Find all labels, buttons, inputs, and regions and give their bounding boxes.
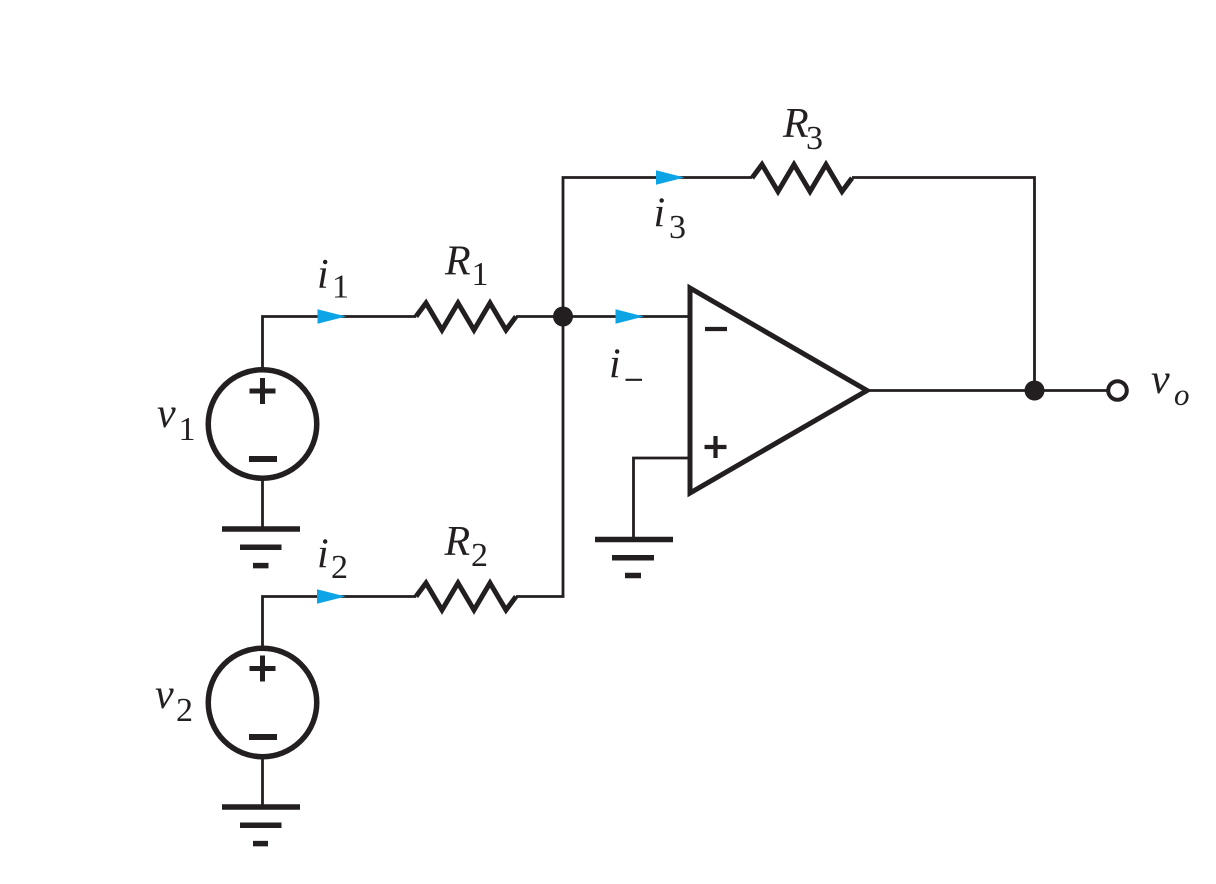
source v2 <box>208 648 317 757</box>
svg-text:3: 3 <box>669 209 686 246</box>
svg-text:2: 2 <box>471 537 488 574</box>
wire vertical riser node to top feedback <box>563 178 752 597</box>
svg-text:3: 3 <box>806 120 823 157</box>
op-amp minus sign <box>705 327 727 331</box>
wire R1 to op-amp inverting input <box>516 315 690 318</box>
source v1 <box>208 370 317 479</box>
svg-text:1: 1 <box>332 269 349 306</box>
svg-text:1: 1 <box>472 256 489 293</box>
wire R2 right to vertical riser <box>516 595 564 598</box>
wire v2 top to R2 <box>263 597 417 648</box>
wire v1 bottom to ground <box>261 480 264 530</box>
svg-text:i: i <box>317 252 329 298</box>
svg-text:o: o <box>1174 377 1190 412</box>
source v2 minus sign <box>249 734 277 740</box>
wire R3 to feedback drop <box>852 178 1035 391</box>
wire op-amp output <box>867 389 1107 392</box>
arrow i1 <box>318 309 347 324</box>
output terminal circle <box>1108 381 1127 400</box>
svg-text:R: R <box>782 101 809 147</box>
source v1 minus sign <box>249 456 277 462</box>
wire v2 bottom to ground <box>261 757 264 807</box>
ground (op-amp noninverting) <box>595 540 673 576</box>
svg-text:2: 2 <box>331 549 348 586</box>
ground (v2) <box>222 807 300 844</box>
resistor R1 <box>416 303 516 330</box>
source v1 plus sign <box>250 378 276 404</box>
ground (v1) <box>222 529 300 566</box>
op-amp plus sign <box>705 436 727 458</box>
resistor R2 <box>416 583 516 610</box>
source v2 plus sign <box>250 656 276 682</box>
arrow i-minus <box>616 309 645 324</box>
arrow i2 <box>317 589 346 604</box>
svg-text:R: R <box>444 239 471 285</box>
node B (output junction) <box>1025 381 1045 401</box>
svg-text:v: v <box>157 391 176 437</box>
resistor R3 <box>752 165 852 192</box>
svg-text:R: R <box>444 519 471 565</box>
arrow i3 <box>656 170 685 185</box>
svg-text:1: 1 <box>179 411 196 448</box>
wire v1 top to R1 <box>263 317 417 369</box>
svg-text:i: i <box>317 532 329 578</box>
node A (inverting input junction) <box>553 307 573 327</box>
svg-text:v: v <box>1151 357 1170 403</box>
svg-text:2: 2 <box>176 692 193 729</box>
wire noninverting input to ground <box>634 458 691 539</box>
op-amp U1 <box>690 288 867 493</box>
svg-text:i: i <box>609 342 621 388</box>
svg-text:i: i <box>654 191 666 237</box>
svg-text:v: v <box>155 672 174 718</box>
